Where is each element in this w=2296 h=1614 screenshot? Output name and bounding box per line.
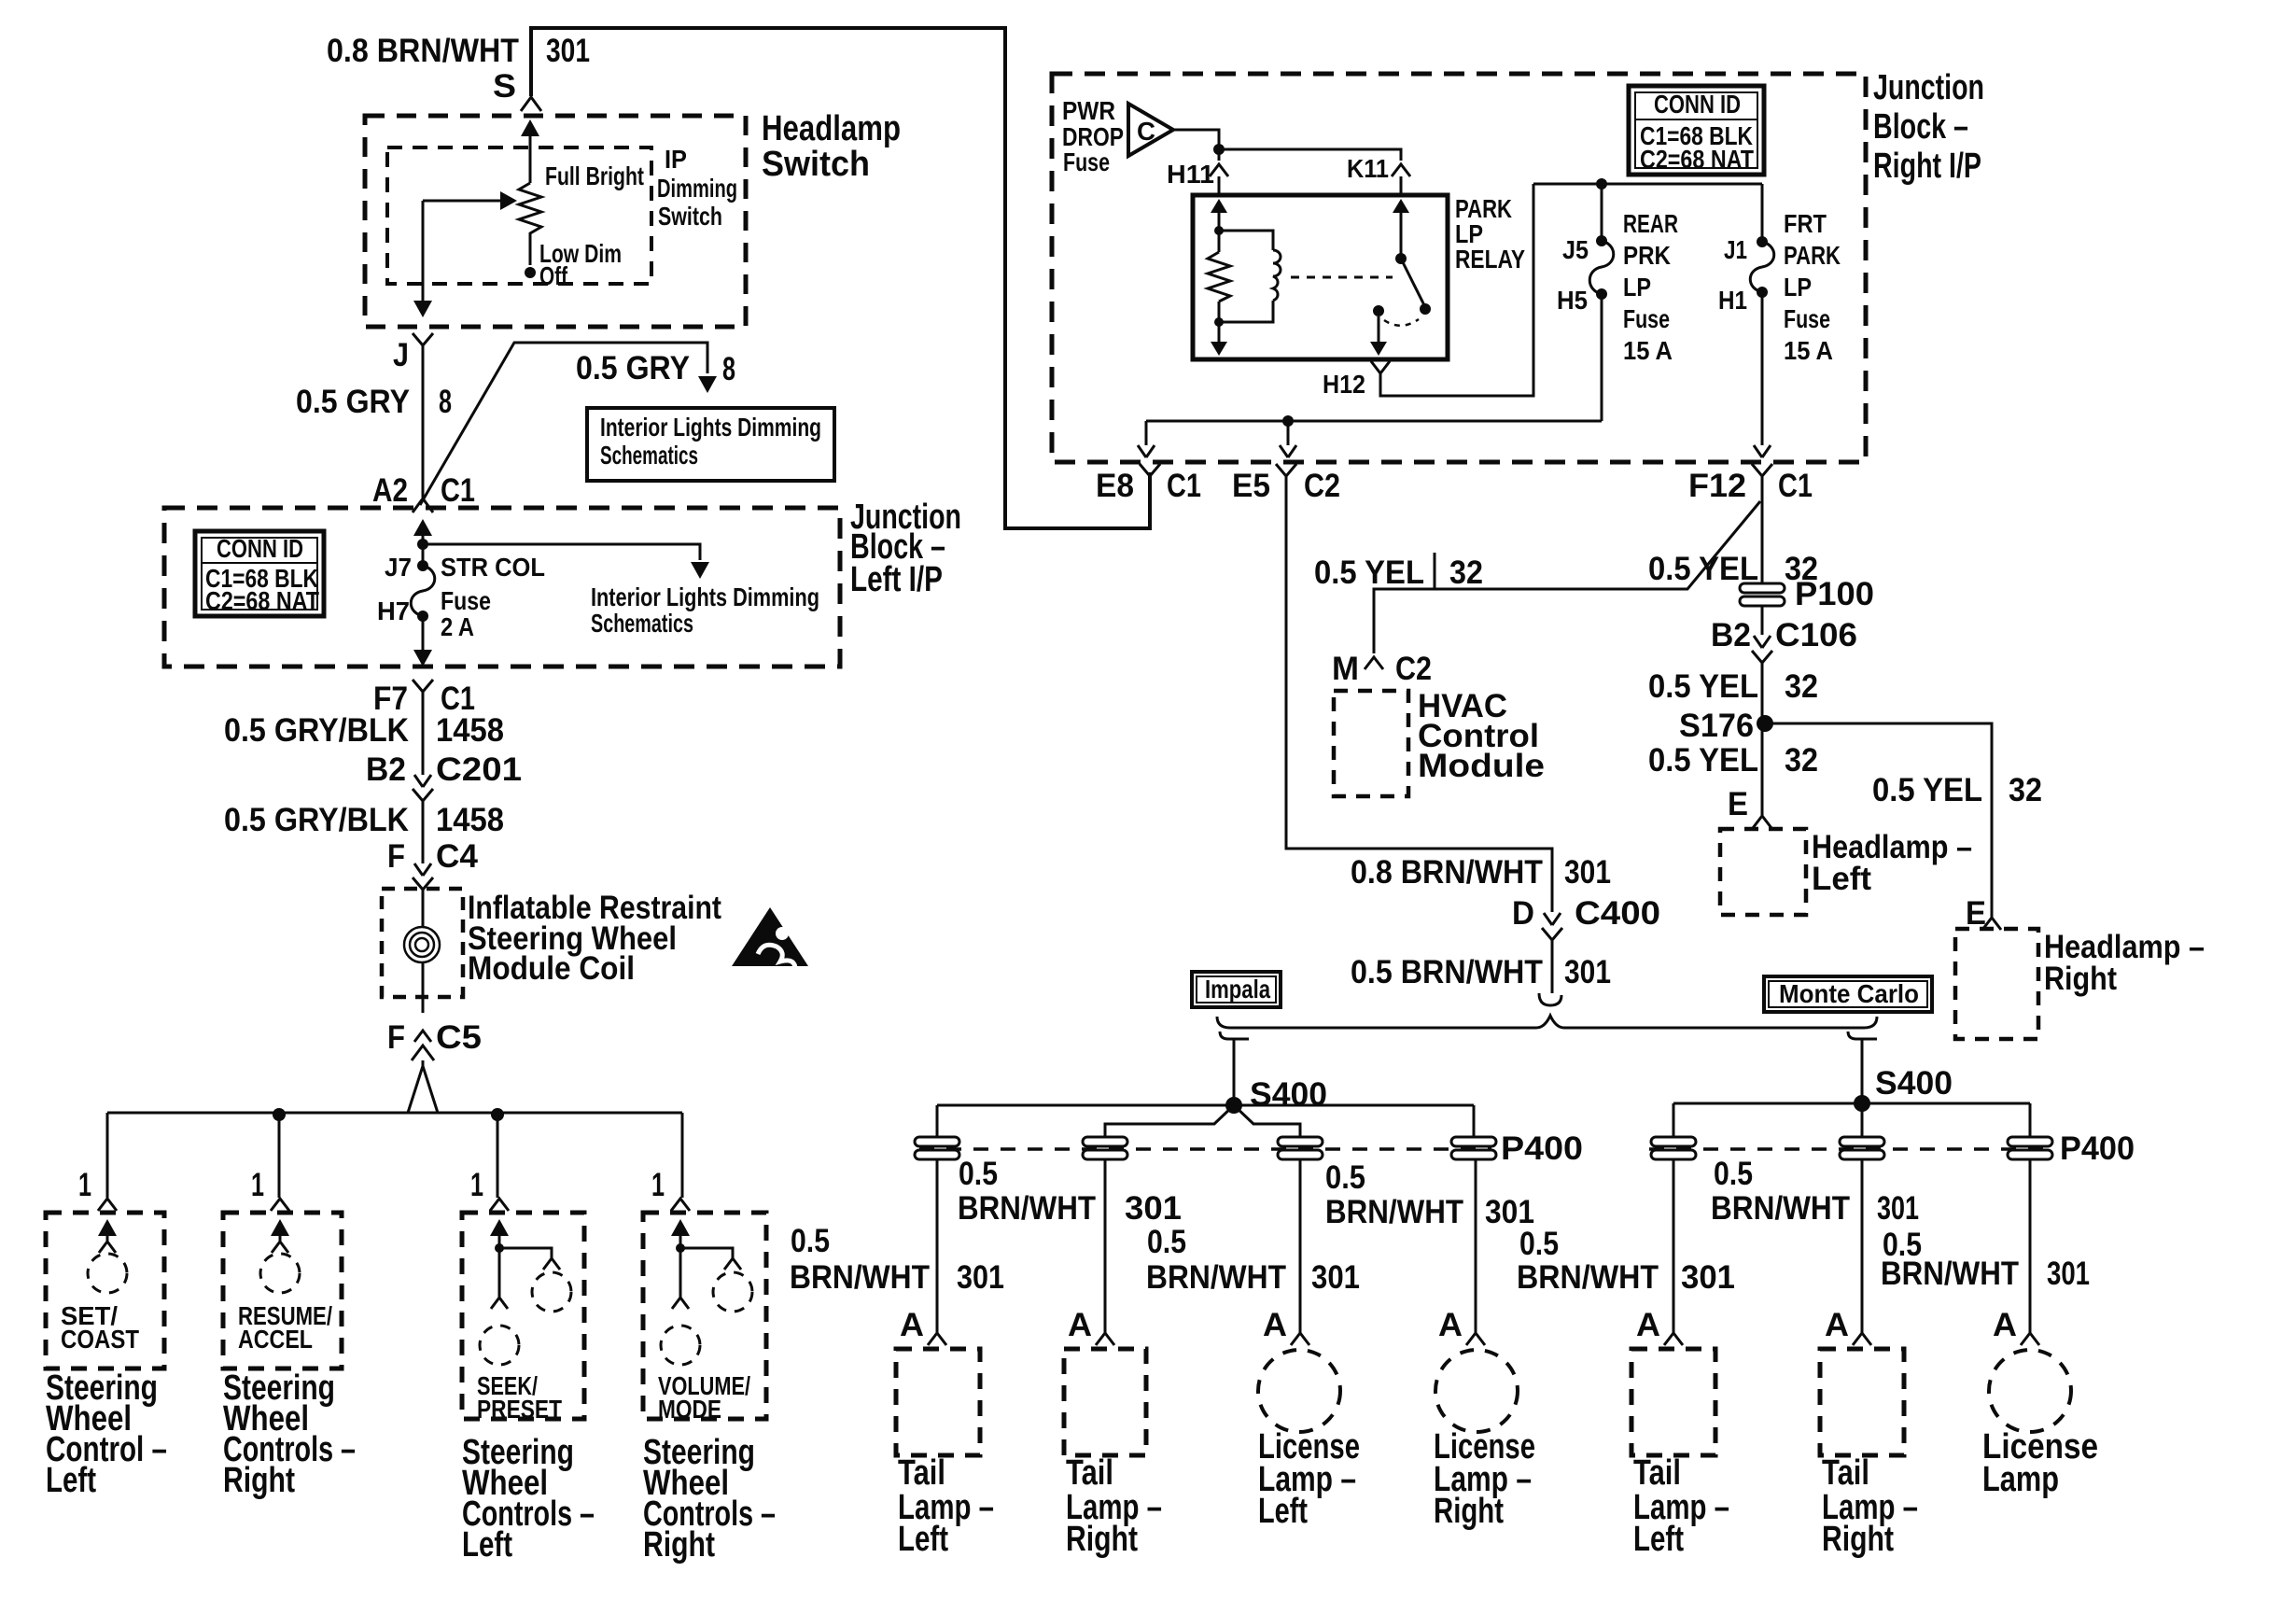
svg-text:LP: LP <box>1623 273 1651 302</box>
wire tail into brace <box>1539 993 1561 1005</box>
relay switch <box>1393 199 1409 213</box>
svg-text:E8: E8 <box>1096 468 1134 504</box>
svg-text:0.5: 0.5 <box>1147 1224 1186 1260</box>
svg-text:301: 301 <box>957 1259 1004 1296</box>
svg-text:C1: C1 <box>1778 468 1813 504</box>
svg-text:A: A <box>1068 1307 1092 1343</box>
svg-text:A2: A2 <box>372 472 408 509</box>
wire 0.5 BRN/WHT 301 to license lamp right <box>1475 1159 1477 1333</box>
wire into switch <box>521 119 539 136</box>
svg-text:32: 32 <box>1449 554 1483 591</box>
svg-text:BRN/WHT: BRN/WHT <box>958 1190 1096 1227</box>
in-line connector P400 pin 3 <box>1278 1137 1323 1146</box>
svg-text:COAST: COAST <box>61 1325 139 1354</box>
wire 0.5 BRN/WHT 301 to tail lamp left (Monte Carlo) <box>1673 1159 1675 1333</box>
interior lights dimming schematics box <box>587 408 834 481</box>
svg-text:C2=68 NAT: C2=68 NAT <box>205 586 319 615</box>
Monte Carlo drop hook <box>1848 1032 1877 1099</box>
Monte Carlo tag box <box>1764 976 1932 1012</box>
inflatable restraint steering wheel module coil box <box>382 889 463 997</box>
svg-text:0.8 BRN/WHT: 0.8 BRN/WHT <box>1351 854 1543 891</box>
svg-text:M: M <box>1332 651 1359 687</box>
svg-text:Module Coil: Module Coil <box>468 950 635 987</box>
branch to interior lights dimming schematics (lower) <box>423 544 700 560</box>
svg-text:STR COL: STR COL <box>441 553 545 582</box>
in-line connector P400 pin 4 <box>1451 1137 1496 1146</box>
svg-text:BRN/WHT: BRN/WHT <box>1881 1256 2019 1292</box>
svg-text:Tail: Tail <box>1633 1453 1681 1493</box>
svg-text:Off: Off <box>539 261 567 290</box>
wire 0.5 BRN/WHT 301 to license lamp left <box>1299 1159 1302 1333</box>
svg-text:301: 301 <box>1877 1190 1919 1227</box>
svg-text:301: 301 <box>1564 854 1611 891</box>
svg-text:F: F <box>387 838 405 875</box>
svg-text:BRN/WHT: BRN/WHT <box>1325 1194 1463 1230</box>
wire S176 to headlamp right <box>1765 723 1992 918</box>
wire 0.5 BRN/WHT 301 to tail lamp right (Monte Carlo) <box>1861 1159 1864 1333</box>
svg-text:15 A: 15 A <box>1623 336 1673 365</box>
svg-text:0.5 GRY/BLK: 0.5 GRY/BLK <box>224 712 409 749</box>
svg-text:A: A <box>1263 1307 1287 1343</box>
svg-text:A: A <box>1636 1307 1660 1343</box>
svg-text:C: C <box>1137 117 1155 146</box>
wire F12 down <box>1761 499 1764 584</box>
svg-text:0.5: 0.5 <box>1714 1156 1753 1192</box>
park lamp relay box <box>1193 195 1448 359</box>
svg-text:H11: H11 <box>1167 160 1214 189</box>
wire E5 to C400 <box>1286 476 1552 912</box>
svg-text:15 A: 15 A <box>1784 336 1833 365</box>
svg-text:Interior Lights Dimming: Interior Lights Dimming <box>600 413 821 442</box>
svg-text:0.5 BRN/WHT: 0.5 BRN/WHT <box>1351 954 1543 990</box>
svg-text:301: 301 <box>2047 1256 2090 1292</box>
P400 pass-through dashed link (Impala) <box>919 1147 1491 1151</box>
svg-text:PWR: PWR <box>1062 96 1115 125</box>
svg-text:0.5 YEL: 0.5 YEL <box>1314 554 1424 591</box>
steering controls bus <box>107 1113 682 1198</box>
brace Impala / Monte Carlo split <box>1217 1016 1877 1028</box>
Impala S400 fanout <box>937 1105 1474 1137</box>
license lamp right <box>1435 1350 1518 1432</box>
relay resistor <box>1208 252 1230 302</box>
wire wiper to J <box>422 201 425 301</box>
svg-text:0.5 GRY/BLK: 0.5 GRY/BLK <box>224 802 409 838</box>
svg-text:Right: Right <box>1066 1520 1138 1559</box>
svg-text:301: 301 <box>1311 1259 1360 1296</box>
svg-text:301: 301 <box>1681 1259 1735 1296</box>
wire F12 to HVAC branch <box>1374 501 1760 653</box>
in-line connector P400 pin 2 <box>1083 1137 1127 1146</box>
svg-text:Fuse: Fuse <box>1784 304 1830 333</box>
in-line connector P400 pin 5 <box>1651 1137 1696 1146</box>
svg-text:C2=68 NAT: C2=68 NAT <box>1640 145 1754 174</box>
IP dimming switch box <box>387 147 651 284</box>
CONN ID table (right) <box>1629 86 1764 175</box>
svg-text:8: 8 <box>722 351 735 387</box>
P400 pass-through dashed link (Monte Carlo) <box>1649 1147 2051 1151</box>
svg-text:Fuse: Fuse <box>1623 304 1670 333</box>
svg-text:PRK: PRK <box>1623 241 1671 270</box>
svg-text:Module: Module <box>1418 748 1545 784</box>
coil spiral <box>415 938 428 951</box>
svg-text:0.5 YEL: 0.5 YEL <box>1648 742 1758 779</box>
license lamp left <box>1258 1350 1340 1432</box>
svg-text:0.5: 0.5 <box>1519 1226 1559 1262</box>
svg-text:Monte Carlo: Monte Carlo <box>1779 979 1919 1008</box>
headlamp left box <box>1720 829 1806 915</box>
svg-text:0.5 GRY: 0.5 GRY <box>576 350 690 386</box>
svg-text:J: J <box>393 337 409 373</box>
svg-text:301: 301 <box>546 33 590 69</box>
svg-text:C400: C400 <box>1575 895 1660 932</box>
svg-text:FRT: FRT <box>1784 209 1827 238</box>
svg-text:Tail: Tail <box>1066 1453 1113 1493</box>
svg-text:Left: Left <box>1633 1520 1684 1559</box>
svg-text:A: A <box>1993 1307 2017 1343</box>
svg-text:Right: Right <box>1434 1492 1504 1531</box>
svg-text:P100: P100 <box>1795 576 1874 612</box>
svg-text:Left I/P: Left I/P <box>850 560 943 599</box>
svg-text:Right: Right <box>2044 961 2117 997</box>
svg-text:Right I/P: Right I/P <box>1873 147 1981 186</box>
svg-text:1458: 1458 <box>436 802 504 838</box>
svg-text:Lamp: Lamp <box>1982 1460 2059 1499</box>
svg-text:C4: C4 <box>436 838 479 875</box>
relay output wire <box>1378 316 1380 343</box>
svg-text:0.8 BRN/WHT: 0.8 BRN/WHT <box>327 33 519 69</box>
svg-text:Headlamp: Headlamp <box>762 109 901 148</box>
svg-text:Left: Left <box>462 1525 512 1565</box>
svg-text:P400: P400 <box>1501 1130 1583 1167</box>
svg-text:H7: H7 <box>377 596 410 625</box>
svg-text:RELAY: RELAY <box>1455 245 1525 274</box>
CONN ID table (left) <box>195 531 324 616</box>
svg-text:Switch: Switch <box>658 202 722 231</box>
headlamp switch box <box>365 116 746 327</box>
svg-text:1: 1 <box>251 1167 264 1203</box>
wire fuse to relay pins <box>1173 130 1401 161</box>
fanout to steering wheel controls <box>408 1060 438 1113</box>
svg-text:Right: Right <box>1822 1520 1894 1559</box>
in-line connector P400 pin 1 <box>915 1137 959 1146</box>
connector B2 C106 <box>1761 606 1764 635</box>
svg-text:Dimming: Dimming <box>657 174 737 203</box>
svg-text:S: S <box>493 68 516 105</box>
svg-text:Left: Left <box>1258 1492 1308 1531</box>
svg-text:Junction: Junction <box>1873 68 1984 107</box>
svg-text:H1: H1 <box>1718 286 1747 315</box>
svg-text:Schematics: Schematics <box>591 609 693 638</box>
relay coil-contact link (dashed) <box>1291 276 1393 279</box>
svg-text:2 A: 2 A <box>441 612 474 641</box>
svg-text:Left: Left <box>46 1461 96 1500</box>
in-line connector P400 pin 7 <box>2008 1137 2052 1146</box>
svg-text:CONN ID: CONN ID <box>1654 90 1741 119</box>
svg-text:E: E <box>1728 786 1748 822</box>
svg-text:Tail: Tail <box>1822 1453 1869 1493</box>
bus to E8 / E5 <box>1146 421 1602 445</box>
in-line connector P400 pin 6 <box>1840 1137 1884 1146</box>
wire S176 down to headlamp left <box>1761 723 1764 816</box>
svg-text:S400: S400 <box>1875 1065 1953 1102</box>
svg-text:C106: C106 <box>1775 617 1857 653</box>
svg-text:J1: J1 <box>1724 235 1747 264</box>
svg-text:A: A <box>1825 1307 1849 1343</box>
tail lamp right (Impala) <box>1064 1349 1146 1455</box>
svg-text:32: 32 <box>1785 742 1818 779</box>
svg-text:F: F <box>387 1019 405 1056</box>
wire 0.5 BRN/WHT 301 to license lamp (Monte Carlo) <box>2029 1159 2032 1333</box>
svg-text:1458: 1458 <box>436 712 504 749</box>
FRT PARK LP fuse 15A <box>1761 184 1764 242</box>
svg-text:BRN/WHT: BRN/WHT <box>1711 1190 1850 1227</box>
svg-text:PARK: PARK <box>1784 241 1841 270</box>
svg-text:0.5: 0.5 <box>959 1156 998 1192</box>
HVAC control module box <box>1334 691 1408 796</box>
svg-text:32: 32 <box>1785 668 1818 705</box>
wire branch to interior lights dimming <box>420 343 707 505</box>
svg-text:1: 1 <box>78 1167 91 1203</box>
svg-text:Impala: Impala <box>1205 975 1270 1003</box>
svg-text:A: A <box>1438 1307 1463 1343</box>
svg-text:0.5 YEL: 0.5 YEL <box>1648 551 1758 587</box>
license lamp (Monte Carlo) <box>1989 1350 2071 1432</box>
Impala tag box <box>1192 972 1281 1007</box>
wire S-terminal to Junction Block Right (E8) <box>531 28 1150 528</box>
relay coil <box>1219 231 1273 250</box>
svg-text:301: 301 <box>1125 1190 1182 1227</box>
svg-text:S400: S400 <box>1250 1076 1327 1113</box>
tail lamp right (Monte Carlo) <box>1820 1349 1904 1455</box>
svg-text:E5: E5 <box>1232 468 1270 504</box>
airbag warning triangle <box>732 907 808 966</box>
relay coil branch entry <box>1211 199 1227 213</box>
svg-text:Right: Right <box>223 1461 295 1500</box>
svg-text:8: 8 <box>439 384 452 420</box>
wiper arrow <box>423 200 500 203</box>
tail lamp left (Monte Carlo) <box>1631 1349 1715 1455</box>
wire H12 to fuses <box>1533 183 1762 186</box>
STR COL fuse 2A <box>417 560 428 571</box>
svg-text:D: D <box>1512 895 1534 932</box>
svg-text:B2: B2 <box>366 751 406 788</box>
Impala drop hook <box>1220 1032 1249 1099</box>
svg-text:MODE: MODE <box>658 1395 721 1424</box>
svg-text:C2: C2 <box>1304 468 1340 504</box>
svg-text:F12: F12 <box>1688 468 1746 504</box>
junction block left I/P box <box>164 508 840 667</box>
svg-text:J5: J5 <box>1562 235 1589 264</box>
headlamp right box <box>1955 929 2038 1039</box>
svg-text:ACCEL: ACCEL <box>238 1325 313 1354</box>
svg-text:REAR: REAR <box>1623 209 1678 238</box>
svg-text:B2: B2 <box>1711 617 1751 653</box>
REAR PRK LP fuse 15A <box>1601 184 1603 241</box>
svg-text:K11: K11 <box>1347 154 1389 183</box>
wire 0.5 BRN/WHT 301 to tail lamp right (Impala) <box>1104 1159 1107 1333</box>
svg-text:LP: LP <box>1784 273 1812 302</box>
svg-text:A: A <box>900 1307 924 1343</box>
svg-text:C1: C1 <box>441 472 475 509</box>
svg-text:Switch: Switch <box>762 145 870 184</box>
svg-text:CONN ID: CONN ID <box>217 534 303 563</box>
svg-text:Tail: Tail <box>898 1453 945 1493</box>
wire 0.5 BRN/WHT 301 to tail lamp left (Impala) <box>936 1159 939 1333</box>
in-line connector P100 <box>1740 583 1785 593</box>
svg-text:32: 32 <box>2009 772 2042 808</box>
svg-text:H12: H12 <box>1323 370 1365 399</box>
svg-text:BRN/WHT: BRN/WHT <box>790 1259 930 1296</box>
svg-text:0.5 YEL: 0.5 YEL <box>1872 772 1982 808</box>
tap dot Off position <box>525 267 536 278</box>
svg-text:C5: C5 <box>436 1019 482 1056</box>
svg-text:P400: P400 <box>2060 1130 2135 1167</box>
svg-text:IP: IP <box>665 145 687 174</box>
svg-text:BRN/WHT: BRN/WHT <box>1517 1259 1659 1296</box>
potentiometer (dimmer rheostat) <box>519 183 541 265</box>
svg-text:PRESET: PRESET <box>477 1395 562 1424</box>
svg-text:BRN/WHT: BRN/WHT <box>1146 1259 1286 1296</box>
svg-text:1: 1 <box>651 1167 665 1203</box>
svg-text:C2: C2 <box>1395 651 1432 687</box>
svg-text:0.5: 0.5 <box>1325 1159 1365 1196</box>
wire through junction block left <box>413 519 432 536</box>
svg-text:E: E <box>1966 895 1986 932</box>
svg-text:Right: Right <box>643 1525 715 1565</box>
connector F7 C1 <box>413 680 433 692</box>
svg-text:0.5 YEL: 0.5 YEL <box>1648 668 1758 705</box>
svg-text:1: 1 <box>470 1167 483 1203</box>
tail lamp left (Impala) <box>896 1349 980 1455</box>
svg-text:C1: C1 <box>1167 468 1201 504</box>
svg-text:Left: Left <box>1812 861 1871 897</box>
svg-text:Block –: Block – <box>1873 107 1968 147</box>
Monte Carlo S400 fanout <box>1673 1103 2030 1137</box>
svg-text:0.5 GRY: 0.5 GRY <box>296 384 410 420</box>
junction block right I/P box <box>1052 74 1866 462</box>
svg-text:S176: S176 <box>1679 708 1754 744</box>
svg-text:0.5: 0.5 <box>791 1223 830 1259</box>
svg-text:J7: J7 <box>385 553 412 582</box>
svg-text:C201: C201 <box>436 751 522 788</box>
svg-text:Left: Left <box>898 1520 948 1559</box>
svg-text:Full Bright: Full Bright <box>545 161 644 190</box>
wire exits block <box>422 616 425 650</box>
svg-text:Interior Lights Dimming: Interior Lights Dimming <box>591 582 819 611</box>
svg-text:301: 301 <box>1564 954 1611 990</box>
svg-text:Schematics: Schematics <box>600 441 698 470</box>
svg-text:H5: H5 <box>1557 286 1588 315</box>
svg-text:Fuse: Fuse <box>1063 147 1110 176</box>
svg-text:Fuse: Fuse <box>441 586 491 615</box>
